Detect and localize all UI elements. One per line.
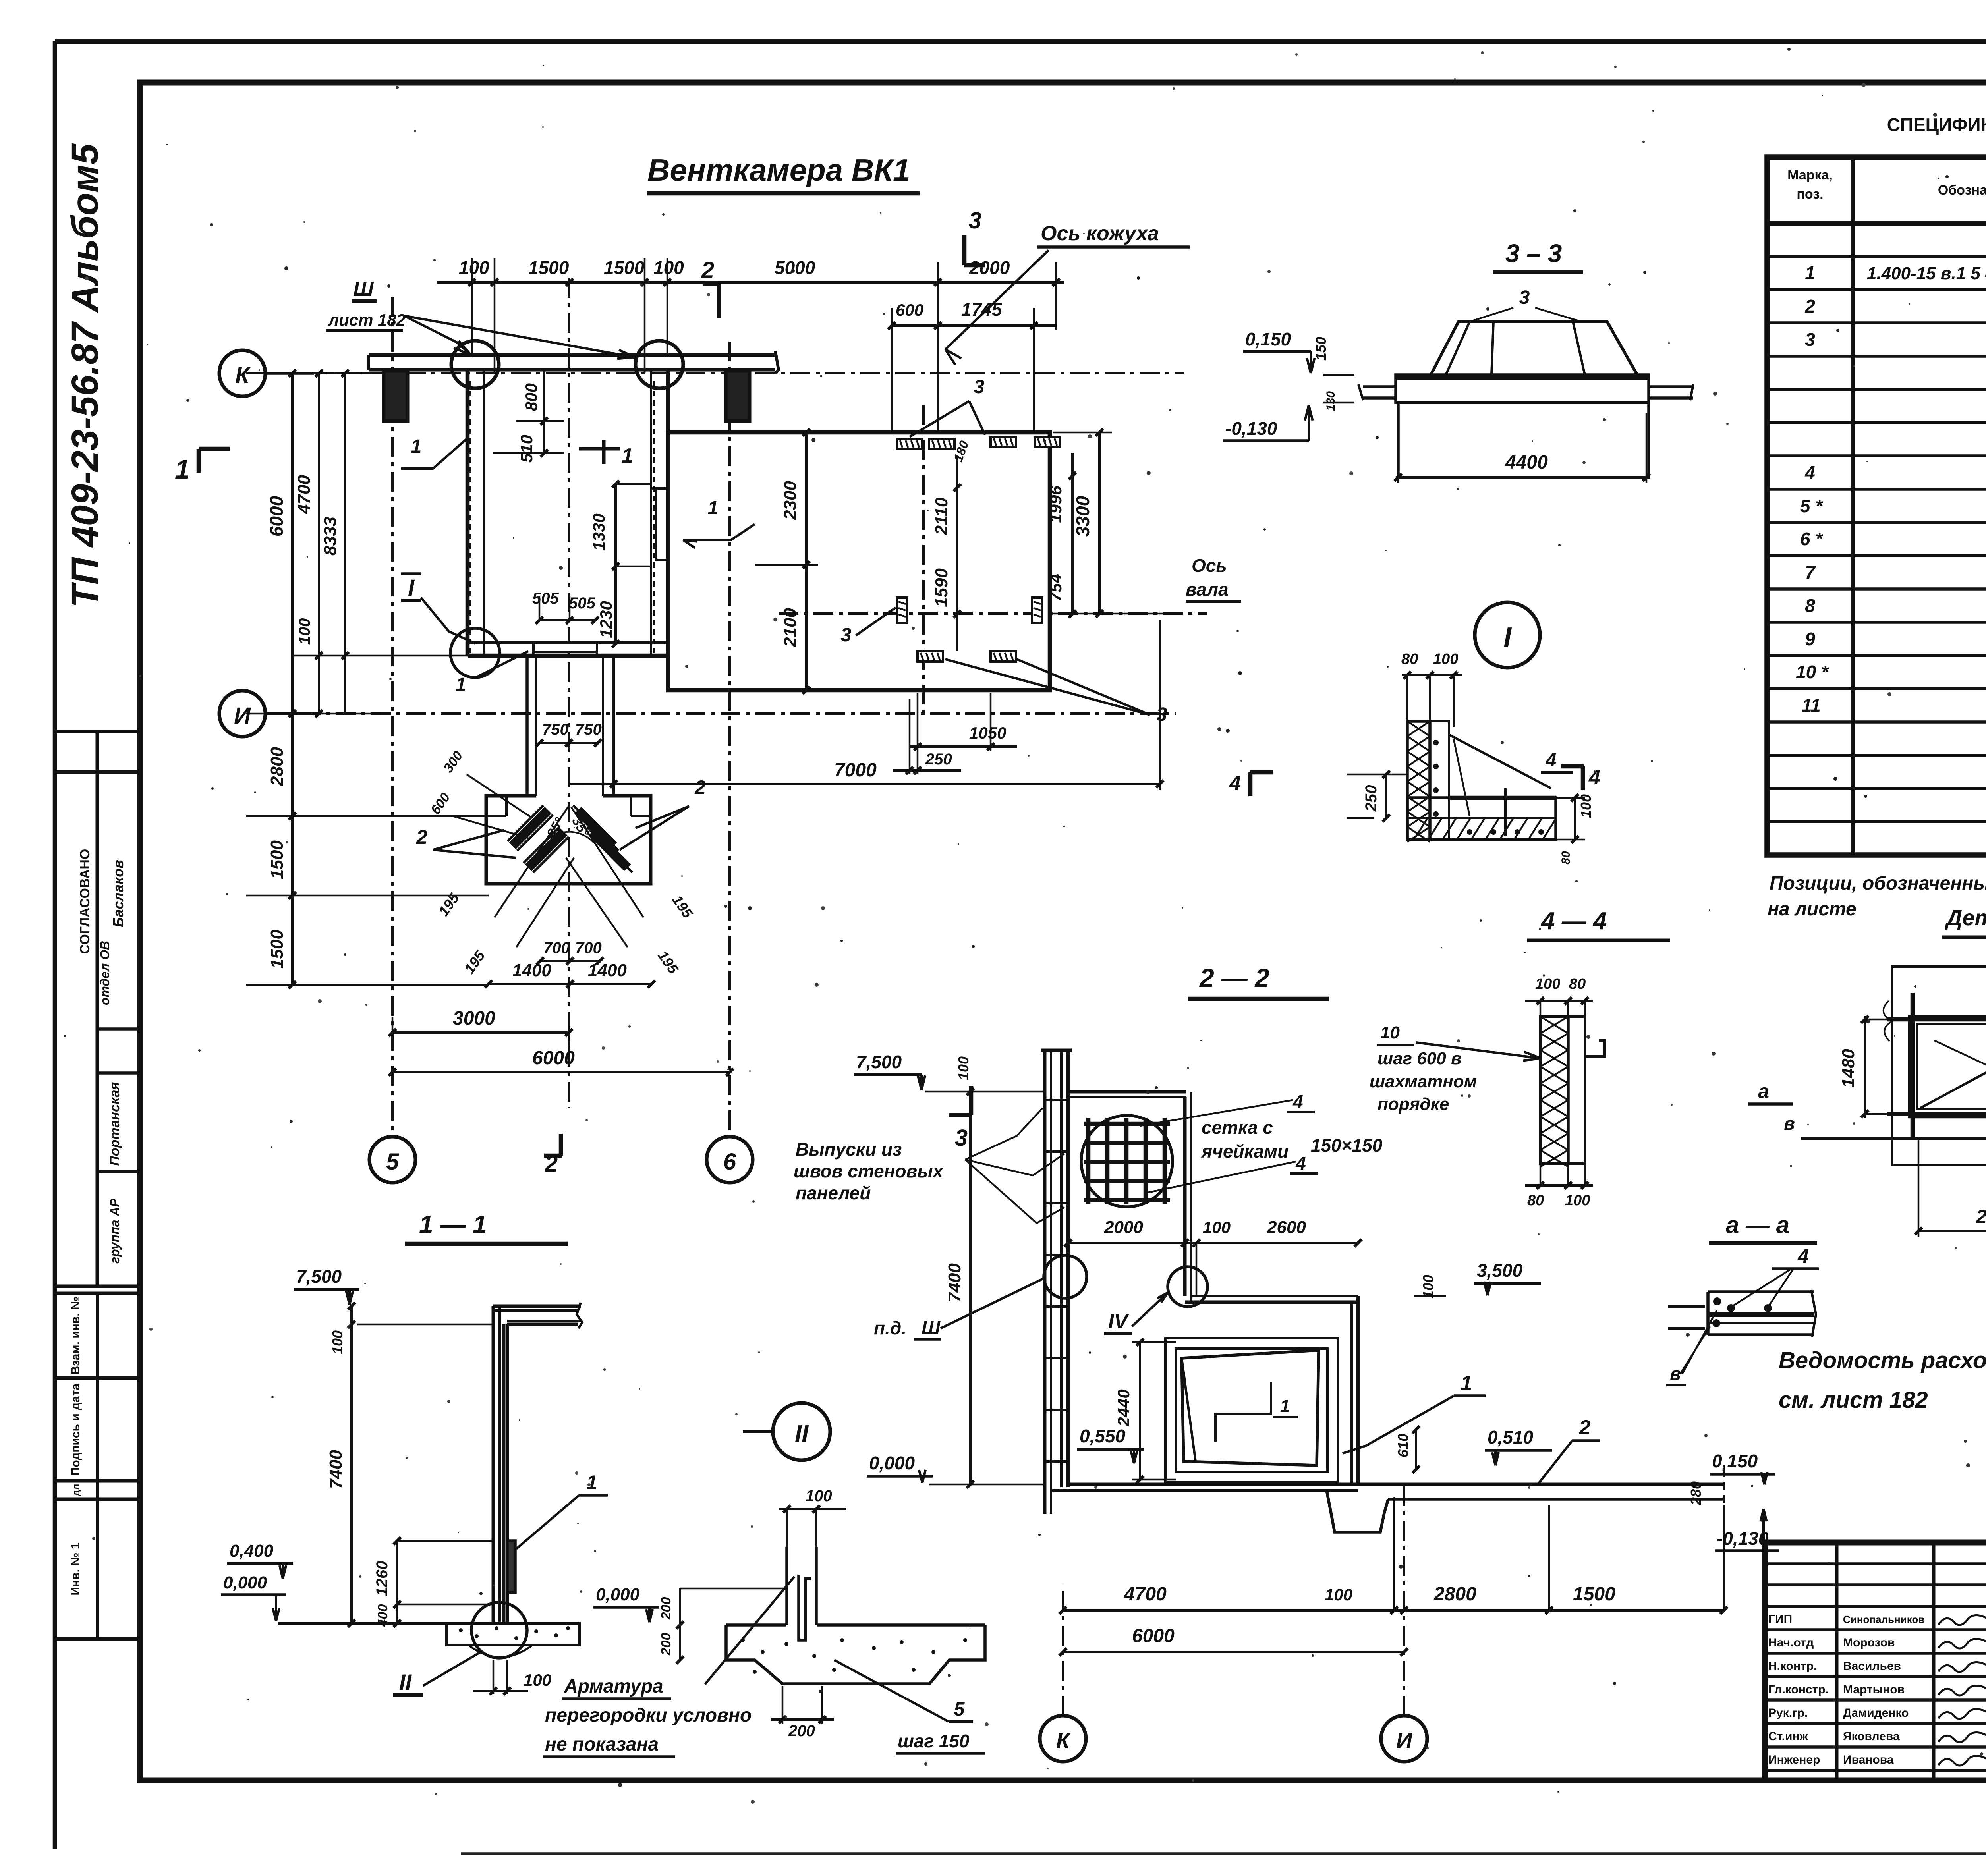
angle 35 arc (545, 832, 594, 843)
svg-text:в: в (1784, 1113, 1795, 1134)
svg-text:7400: 7400 (945, 1263, 964, 1302)
opening 1 frame (1910, 1017, 1986, 1116)
svg-text:8333: 8333 (321, 517, 340, 556)
svg-text:200: 200 (659, 1633, 674, 1656)
svg-text:группа АР: группа АР (108, 1198, 122, 1263)
svg-text:800: 800 (522, 383, 541, 411)
svg-text:4700: 4700 (294, 475, 314, 514)
svg-text:7,500: 7,500 (296, 1266, 342, 1287)
dim 1996 754 right of shaft (1071, 453, 1074, 614)
svg-text:1590: 1590 (932, 568, 951, 607)
2-2 dim 6000 (1063, 1651, 1404, 1653)
svg-text:II: II (795, 1421, 809, 1448)
chamber inner wall lines right gap (651, 487, 668, 490)
svg-text:100: 100 (1420, 1275, 1436, 1299)
svg-text:100: 100 (955, 1056, 972, 1080)
svg-text:2100: 2100 (780, 608, 800, 647)
dim 2110 1590 inside shaft (956, 457, 958, 651)
svg-text:1480: 1480 (1839, 1049, 1858, 1088)
1-1 pilaster item 1 (507, 1541, 515, 1592)
svg-text:8: 8 (1805, 595, 1815, 616)
3-3 fan cowl trapezoid (1431, 322, 1637, 375)
svg-text:5: 5 (386, 1149, 399, 1175)
svg-text:Баслаков: Баслаков (110, 860, 126, 927)
svg-text:100: 100 (1535, 976, 1560, 992)
2-2 opening panel (1182, 1350, 1319, 1465)
svg-text:шахматном: шахматном (1370, 1072, 1477, 1091)
svg-text:750: 750 (542, 721, 569, 738)
svg-text:4: 4 (1295, 1153, 1306, 1173)
1-1 top slab (493, 1305, 581, 1308)
svg-text:610: 610 (1395, 1434, 1411, 1457)
svg-text:280: 280 (1688, 1481, 1704, 1505)
svg-text:2300: 2300 (780, 481, 800, 520)
svg-text:II: II (399, 1669, 412, 1695)
svg-text:100: 100 (1565, 1192, 1590, 1209)
detail II footing speckles (741, 1638, 745, 1642)
svg-text:порядке: порядке (1377, 1094, 1449, 1114)
svg-text:1: 1 (622, 444, 633, 467)
1-1 dim 1260 400 (396, 1541, 398, 1623)
1-1 detail circle II (471, 1602, 527, 1658)
svg-text:Выпуски из: Выпуски из (796, 1139, 902, 1160)
2-2 wall panel column (1043, 1050, 1047, 1514)
svg-text:100: 100 (296, 618, 313, 645)
svg-text:250: 250 (1362, 785, 1380, 812)
svg-text:Ш: Ш (354, 278, 374, 301)
svg-text:2: 2 (416, 826, 427, 848)
svg-text:Ось: Ось (1192, 555, 1227, 576)
svg-text:Обозначение: Обозначение (1938, 183, 1986, 198)
axis I dash-dot line (266, 712, 1176, 715)
detail II rebar (799, 1575, 811, 1640)
1-1 wall (492, 1306, 495, 1623)
svg-text:панелей: панелей (796, 1183, 871, 1203)
svg-text:6000: 6000 (266, 496, 287, 537)
svg-text:700: 700 (575, 939, 602, 957)
svg-text:510: 510 (517, 435, 536, 463)
svg-text:Нач.отд: Нач.отд (1768, 1636, 1814, 1649)
svg-text:3 – 3: 3 – 3 (1505, 239, 1562, 268)
4-4 rebar hook (1585, 1040, 1605, 1056)
2-2 grid circle I (1381, 1716, 1427, 1762)
svg-text:отдел ОВ: отдел ОВ (98, 941, 112, 1005)
2-2 step corner down (1183, 1097, 1187, 1296)
svg-text:IV: IV (1108, 1310, 1129, 1333)
sidebar stamp table (55, 730, 140, 733)
detail II dim 100 (779, 1508, 846, 1510)
left dim chain 6000 4700 8333 (291, 373, 294, 714)
svg-text:3000: 3000 (453, 1008, 495, 1029)
svg-text:4400: 4400 (1505, 452, 1548, 473)
svg-text:100: 100 (1325, 1585, 1352, 1604)
svg-text:130: 130 (1324, 391, 1337, 411)
chamber neck walls (525, 656, 529, 796)
2-2 dim 7400 (969, 1092, 972, 1484)
chamber center axis dash-dot (568, 278, 570, 1108)
svg-text:1330: 1330 (589, 513, 608, 550)
svg-text:4: 4 (1292, 1091, 1303, 1112)
svg-text:2000: 2000 (969, 257, 1010, 278)
title block frame (1765, 1542, 1986, 1780)
dim 7000 (570, 783, 1160, 785)
fan foundation outline (486, 796, 651, 884)
svg-text:-0,130: -0,130 (1225, 418, 1277, 439)
svg-text:2110: 2110 (932, 497, 951, 535)
svg-text:И: И (234, 703, 251, 729)
svg-text:0,000: 0,000 (596, 1585, 640, 1604)
2-2 opening hatched border (1165, 1338, 1338, 1482)
detail II dim 200 bottom (771, 1718, 834, 1721)
svg-text:Взам. инв. №: Взам. инв. № (69, 1297, 82, 1375)
svg-text:6: 6 (723, 1149, 736, 1175)
svg-text:Портанская: Портанская (107, 1082, 122, 1166)
2-2 mid slab (1191, 1295, 1358, 1297)
dim 1330 1330 vertical (614, 484, 617, 644)
svg-text:3: 3 (1805, 329, 1815, 350)
svg-text:250: 250 (925, 751, 952, 768)
opening 1 dim 1480 (1864, 1016, 1866, 1118)
svg-text:80: 80 (1527, 1192, 1544, 1209)
svg-text:вала: вала (1186, 579, 1229, 600)
left dim chain 2800 1500 1500 (291, 714, 294, 985)
a-a beam (1706, 1292, 1710, 1335)
svg-text:4: 4 (1797, 1245, 1809, 1267)
detail I wall hatched (1407, 721, 1430, 840)
panel outline (1892, 967, 1986, 1165)
svg-text:в: в (1670, 1363, 1681, 1384)
svg-text:Синопальников: Синопальников (1843, 1614, 1924, 1625)
svg-text:1: 1 (411, 436, 422, 457)
grid axis 5 vertical dash-dot (391, 297, 394, 1137)
svg-text:Инженер: Инженер (1768, 1753, 1820, 1766)
svg-text:4700: 4700 (1124, 1584, 1167, 1605)
1-1 dim 7400 (350, 1362, 353, 1623)
a-a bar dots (1713, 1297, 1721, 1305)
4-4 wall dim 100 80 top (1525, 1000, 1593, 1002)
svg-text:перегородки условно: перегородки условно (545, 1705, 752, 1726)
1-1 footing speckles (459, 1628, 463, 1632)
svg-text:Ведомость расхода стали: Ведомость расхода стали (1779, 1347, 1986, 1373)
svg-text:Дамиденко: Дамиденко (1843, 1706, 1909, 1720)
dim 1050 250 (910, 745, 1017, 748)
svg-text:на листе: на листе (1768, 899, 1857, 920)
svg-text:4 — 4: 4 — 4 (1540, 907, 1607, 935)
svg-text:1500: 1500 (1573, 1584, 1615, 1605)
svg-text:2800: 2800 (1433, 1584, 1476, 1605)
svg-text:1260: 1260 (373, 1561, 391, 1596)
svg-text:80: 80 (1559, 851, 1573, 865)
dim 1400 1400 (489, 983, 651, 985)
detail I dim 250 (1385, 774, 1387, 818)
svg-text:сетка с: сетка с (1202, 1117, 1273, 1138)
svg-text:Ст.инж: Ст.инж (1768, 1730, 1808, 1743)
svg-text:4: 4 (1229, 772, 1241, 795)
svg-text:754: 754 (1046, 574, 1065, 602)
svg-text:7,500: 7,500 (856, 1052, 902, 1072)
shaft plan rectangle (668, 432, 1050, 690)
2-2 detail circle p.d.III (1044, 1255, 1087, 1298)
grid axis 6 vertical dash-dot (728, 342, 731, 1137)
svg-text:600: 600 (896, 301, 923, 319)
svg-text:7000: 7000 (834, 760, 877, 781)
svg-text:Иванова: Иванова (1843, 1753, 1894, 1766)
svg-text:1230: 1230 (597, 601, 615, 638)
svg-text:1500: 1500 (267, 840, 287, 879)
svg-text:5 *: 5 * (1800, 496, 1823, 516)
svg-text:3: 3 (969, 208, 981, 234)
svg-text:10: 10 (1380, 1023, 1400, 1042)
2-2 inner wall right (1350, 1302, 1353, 1484)
shaft axis horizontal os vala (779, 612, 1207, 615)
top dimension line 100 1500 1500 100 5000 2000 (437, 281, 1064, 284)
foundation diagonal embedded bars (512, 810, 548, 846)
svg-text:швов стеновых: швов стеновых (794, 1161, 944, 1181)
shaft embedded plates (897, 439, 922, 449)
svg-text:СПЕЦИФИКАЦИЯ ЭЛЕМЕНТОВ К СХ: СПЕЦИФИКАЦИЯ ЭЛЕМЕНТОВ К СХЕМЕ РАСПОЛОЖЕ… (1887, 114, 1986, 135)
svg-text:1400: 1400 (512, 961, 551, 980)
svg-text:505: 505 (569, 594, 595, 612)
svg-text:100: 100 (329, 1330, 346, 1354)
svg-text:9: 9 (1805, 629, 1815, 649)
sidebar lower stamps (55, 1292, 140, 1295)
svg-text:Венткамера ВК1: Венткамера ВК1 (647, 152, 910, 187)
svg-text:4: 4 (1804, 462, 1815, 483)
opening 1 crossing bars (1911, 993, 1915, 1140)
svg-text:3: 3 (955, 1125, 968, 1151)
svg-text:1500: 1500 (267, 930, 287, 969)
3-3 dim 4400 (1396, 476, 1649, 479)
dim 3000 (392, 1031, 569, 1034)
svg-text:700: 700 (543, 939, 570, 957)
svg-text:не показана: не показана (545, 1734, 659, 1755)
2-2 floor slab right (1358, 1483, 1724, 1486)
detail I cut mark 4 right (1581, 766, 1585, 790)
beam circle left (451, 341, 499, 388)
left dim 100 (315, 652, 323, 659)
grid circle K (219, 350, 265, 396)
detail II dims 200 200 (679, 1588, 681, 1660)
dim 3300 far right (1098, 432, 1101, 614)
detail I dim 80 100 (1402, 674, 1462, 676)
svg-text:11: 11 (1802, 695, 1821, 716)
2-2 mesh circle (1081, 1116, 1173, 1207)
svg-text:2000: 2000 (1104, 1218, 1143, 1237)
svg-text:1.400-15 в.1 5 40-09: 1.400-15 в.1 5 40-09 (1867, 264, 1986, 283)
dim 505 505 (539, 619, 595, 621)
svg-text:Мартынов: Мартынов (1843, 1683, 1905, 1696)
svg-text:I: I (408, 575, 415, 601)
svg-text:а — а: а — а (1726, 1212, 1789, 1238)
svg-text:6000: 6000 (532, 1048, 575, 1069)
svg-text:3,500: 3,500 (1477, 1260, 1523, 1281)
svg-text:6 *: 6 * (1800, 529, 1823, 549)
svg-text:10 *: 10 * (1796, 662, 1829, 682)
svg-text:Инв. № 1: Инв. № 1 (69, 1542, 82, 1595)
axis K dash-dot line (266, 372, 1184, 374)
bottom scan edge line (461, 1852, 1986, 1855)
2-2 dim 2440 (1139, 1342, 1141, 1480)
a-a extension lines (1668, 1305, 1705, 1308)
svg-text:100: 100 (806, 1487, 832, 1505)
svg-text:Подпись и дата: Подпись и дата (69, 1383, 82, 1476)
svg-text:7: 7 (1805, 562, 1816, 583)
svg-text:1: 1 (708, 498, 719, 519)
svg-text:2: 2 (1579, 1416, 1591, 1439)
3-3 foundation block (1398, 403, 1649, 477)
2-2 bottom dims 4700 100 2800 1500 (1063, 1609, 1724, 1612)
svg-text:Морозов: Морозов (1843, 1636, 1895, 1649)
svg-text:К: К (235, 363, 251, 388)
svg-text:I: I (1503, 622, 1512, 654)
svg-text:Васильев: Васильев (1843, 1660, 1901, 1673)
shaft axis vertical (922, 405, 925, 719)
svg-text:0,150: 0,150 (1712, 1451, 1758, 1471)
specification table grid (1767, 157, 1986, 855)
foundation diagonal guide lines (495, 807, 568, 917)
svg-text:1500: 1500 (528, 257, 569, 278)
svg-text:Позиции, обозначенные знаком*,: Позиции, обозначенные знаком*, см. ведом… (1770, 873, 1986, 894)
svg-text:Марка,: Марка, (1787, 168, 1833, 183)
svg-text:Н.контр.: Н.контр. (1768, 1660, 1817, 1673)
svg-text:4: 4 (1588, 766, 1600, 789)
detail I reinforcement (1449, 735, 1551, 788)
svg-text:а: а (1758, 1080, 1769, 1102)
2-2 vypuski leaders (965, 1108, 1043, 1160)
detail II circle mark (773, 1403, 830, 1460)
svg-text:6000: 6000 (1132, 1625, 1175, 1646)
detail I circle mark (1475, 602, 1540, 668)
opening 1 dim 2660 (1918, 1230, 1986, 1232)
svg-text:3: 3 (841, 625, 852, 646)
svg-text:7400: 7400 (326, 1450, 346, 1489)
svg-text:100: 100 (459, 257, 489, 278)
svg-text:Гл.констр.: Гл.констр. (1768, 1683, 1829, 1696)
svg-text:2600: 2600 (1267, 1218, 1306, 1237)
svg-text:505: 505 (532, 590, 559, 607)
svg-text:2 — 2: 2 — 2 (1199, 963, 1269, 992)
svg-text:100: 100 (524, 1671, 551, 1689)
svg-text:шаг 150: шаг 150 (898, 1731, 970, 1751)
svg-text:ГИП: ГИП (1768, 1613, 1792, 1626)
svg-text:шаг 600 в: шаг 600 в (1377, 1049, 1462, 1068)
dimension line 600 1745 (892, 324, 1056, 327)
2-2 detail circle IV (1168, 1267, 1207, 1307)
svg-text:СОГЛАСОВАНО: СОГЛАСОВАНО (77, 849, 93, 954)
4-4 wall hatched (1540, 1017, 1568, 1164)
sheet outer border (55, 39, 1986, 44)
grid circle 5 (369, 1137, 415, 1183)
foundation corner notches (486, 815, 506, 817)
svg-text:150×150: 150×150 (1311, 1135, 1383, 1156)
detail I floor (1407, 798, 1556, 840)
svg-text:0,550: 0,550 (1080, 1426, 1126, 1446)
svg-text:0,000: 0,000 (869, 1453, 915, 1473)
dim 510 800 vertical (543, 371, 545, 453)
detail II wall stub (785, 1547, 788, 1625)
svg-text:дл: дл (71, 1484, 82, 1496)
svg-text:3: 3 (974, 376, 985, 398)
svg-text:1996: 1996 (1046, 486, 1065, 523)
svg-text:0,150: 0,150 (1245, 329, 1291, 349)
svg-text:К: К (1056, 1728, 1071, 1753)
svg-text:см. лист 182: см. лист 182 (1779, 1387, 1928, 1413)
chamber right wall (666, 371, 670, 656)
section mark 1-1 right tick (579, 447, 620, 451)
svg-text:2660: 2660 (1976, 1206, 1986, 1228)
svg-text:100: 100 (1203, 1218, 1231, 1237)
svg-text:750: 750 (575, 721, 602, 738)
svg-text:5000: 5000 (775, 257, 815, 278)
1-1 dim 100 bottom (493, 1660, 495, 1694)
svg-text:1050: 1050 (969, 724, 1006, 742)
svg-text:200: 200 (788, 1722, 815, 1740)
svg-text:ТП 409-23-56.87 Альбом5: ТП 409-23-56.87 Альбом5 (64, 143, 106, 608)
svg-text:1500: 1500 (604, 257, 645, 278)
svg-text:3: 3 (1519, 287, 1530, 308)
svg-text:0,510: 0,510 (1488, 1427, 1534, 1448)
svg-text:1: 1 (586, 1471, 597, 1494)
svg-text:5: 5 (954, 1699, 965, 1720)
svg-text:0,000: 0,000 (223, 1573, 267, 1592)
grid circle I (219, 691, 265, 737)
svg-text:2440: 2440 (1114, 1389, 1133, 1426)
svg-text:150: 150 (1313, 337, 1329, 361)
svg-text:поз.: поз. (1797, 187, 1823, 202)
svg-text:Рук.гр.: Рук.гр. (1768, 1706, 1808, 1720)
dim 750 750 (539, 742, 598, 744)
dim 700 700 (540, 960, 600, 962)
svg-text:80: 80 (1401, 651, 1418, 668)
svg-text:Ш: Ш (922, 1318, 941, 1339)
3-3 slab (1396, 375, 1649, 403)
2-2 roof slab top (1068, 1090, 1186, 1094)
dim 6000 bottom (392, 1071, 730, 1073)
svg-text:2: 2 (701, 257, 714, 283)
svg-text:100: 100 (1433, 651, 1458, 668)
svg-text:1: 1 (175, 454, 190, 484)
detail I dim 100 right (1574, 798, 1576, 840)
svg-text:2800: 2800 (267, 747, 287, 786)
svg-text:1: 1 (1461, 1372, 1472, 1395)
2-2 floor line (1068, 1483, 1358, 1486)
svg-text:2: 2 (694, 776, 706, 799)
beam circle right (636, 341, 683, 388)
svg-text:Деталь окаймления отверстий: Деталь окаймления отверстий (1945, 905, 1986, 930)
detail I bars dots (1433, 740, 1439, 745)
svg-text:Яковлева: Яковлева (1843, 1730, 1900, 1743)
grid circle 6 (707, 1137, 753, 1183)
svg-text:200: 200 (659, 1597, 674, 1620)
4-4 dim 80 100 bottom (1525, 1184, 1593, 1187)
dim 2300 2100 left of shaft (805, 432, 808, 690)
svg-text:1: 1 (1280, 1396, 1290, 1416)
svg-text:лист 182: лист 182 (328, 311, 406, 329)
svg-text:2: 2 (1804, 296, 1815, 317)
top beam plan (369, 353, 775, 357)
svg-text:п.д.: п.д. (874, 1318, 906, 1338)
detail II footing (726, 1623, 786, 1627)
svg-text:80: 80 (1569, 976, 1586, 992)
svg-text:Ось кожуха: Ось кожуха (1041, 222, 1159, 245)
chamber bottom opening (533, 643, 597, 652)
svg-text:4: 4 (1546, 750, 1557, 771)
svg-text:0,400: 0,400 (230, 1541, 274, 1561)
svg-text:3300: 3300 (1072, 496, 1093, 537)
svg-text:3: 3 (1157, 704, 1167, 725)
2-2 mesh leaders to 4 (1140, 1100, 1293, 1126)
svg-text:1: 1 (1805, 262, 1815, 283)
